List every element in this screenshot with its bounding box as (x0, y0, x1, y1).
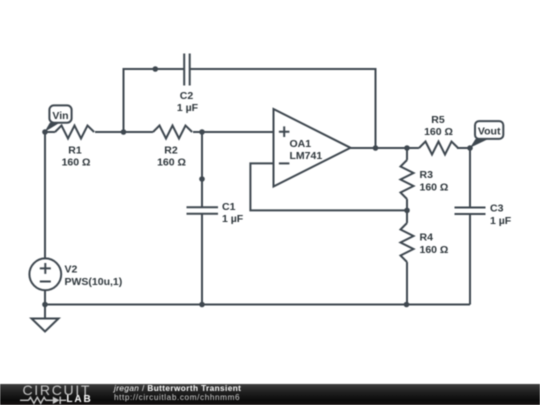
svg-text:Vout: Vout (478, 125, 501, 137)
svg-text:1 µF: 1 µF (222, 213, 244, 225)
svg-text:LM741: LM741 (290, 150, 323, 162)
svg-text:V2: V2 (65, 263, 78, 275)
svg-text:R1: R1 (68, 145, 82, 157)
svg-text:PWS(10u,1): PWS(10u,1) (65, 276, 123, 288)
svg-text:jregan / Butterworth Transient: jregan / Butterworth Transient (113, 384, 241, 393)
svg-text:http://circuitlab.com/chhnmm6: http://circuitlab.com/chhnmm6 (114, 393, 240, 402)
svg-text:1 µF: 1 µF (177, 102, 199, 114)
svg-text:1 µF: 1 µF (490, 215, 512, 227)
svg-text:OA1: OA1 (290, 138, 312, 150)
svg-text:C3: C3 (490, 203, 504, 215)
svg-text:C2: C2 (180, 90, 194, 102)
svg-text:R4: R4 (420, 232, 434, 244)
svg-text:C1: C1 (222, 201, 236, 213)
svg-text:160 Ω: 160 Ω (420, 181, 449, 193)
svg-text:R2: R2 (164, 145, 178, 157)
svg-text:LAB: LAB (66, 394, 92, 405)
svg-text:160 Ω: 160 Ω (420, 244, 449, 256)
svg-text:Vin: Vin (52, 110, 68, 122)
svg-text:160 Ω: 160 Ω (62, 157, 91, 169)
svg-text:R3: R3 (420, 169, 434, 181)
svg-text:R5: R5 (431, 114, 445, 126)
svg-text:160 Ω: 160 Ω (424, 126, 453, 138)
svg-text:160 Ω: 160 Ω (157, 157, 186, 169)
